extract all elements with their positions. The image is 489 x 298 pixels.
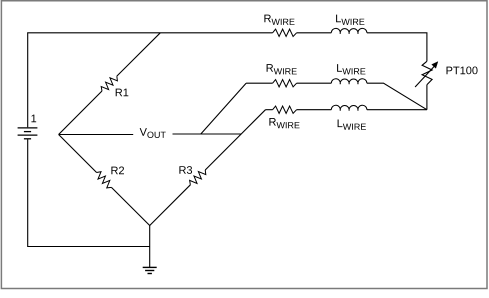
inductor LWIRE middle bbox=[331, 79, 367, 84]
wire: Vout right segment to R3 diagonal bbox=[173, 133, 242, 135]
label VOUT bbox=[140, 128, 166, 138]
wire: middle branch right + diagonal down to PT100 bottom node bbox=[367, 83, 427, 110]
wire: battery bottom lead and bottom rail to ground node bbox=[28, 140, 150, 247]
resistor RWIRE bottom bbox=[273, 106, 297, 113]
wire: diagonal from Vout node up to middle branch bbox=[201, 83, 246, 134]
ground bbox=[143, 226, 157, 274]
label LWIRE bottom bbox=[338, 120, 366, 130]
wire: Vout left segment bbox=[59, 134, 134, 136]
label R3 bbox=[179, 166, 192, 174]
resistor RWIRE middle bbox=[273, 80, 297, 87]
label R1 bbox=[116, 89, 129, 97]
wire: bottom branch left segment bbox=[266, 109, 273, 111]
wire: middle branch between R and L bbox=[297, 82, 332, 84]
label PT100 bbox=[447, 67, 478, 75]
PT100 variable resistor bbox=[415, 61, 438, 109]
label LWIRE top bbox=[336, 15, 364, 25]
wire: bottom branch right segment bbox=[367, 109, 427, 111]
resistor R3 bbox=[150, 110, 266, 226]
resistor R1 bbox=[59, 33, 161, 135]
resistor RWIRE top bbox=[273, 29, 297, 36]
label RWIRE top bbox=[264, 15, 294, 25]
inductor LWIRE bottom bbox=[331, 105, 367, 110]
wire: battery top lead, top rail, PT100 top lead bbox=[28, 33, 427, 128]
battery 1 bbox=[18, 128, 38, 139]
label RWIRE bottom bbox=[269, 118, 299, 128]
wire: bottom branch between R and L bbox=[297, 109, 332, 111]
wire: middle branch left segment bbox=[246, 82, 273, 84]
label 1 bbox=[31, 115, 36, 123]
label LWIRE middle bbox=[337, 64, 365, 74]
inductor LWIRE top bbox=[331, 28, 367, 33]
label R2 bbox=[111, 167, 124, 175]
label RWIRE middle bbox=[267, 64, 297, 74]
resistor R2 bbox=[59, 135, 150, 226]
